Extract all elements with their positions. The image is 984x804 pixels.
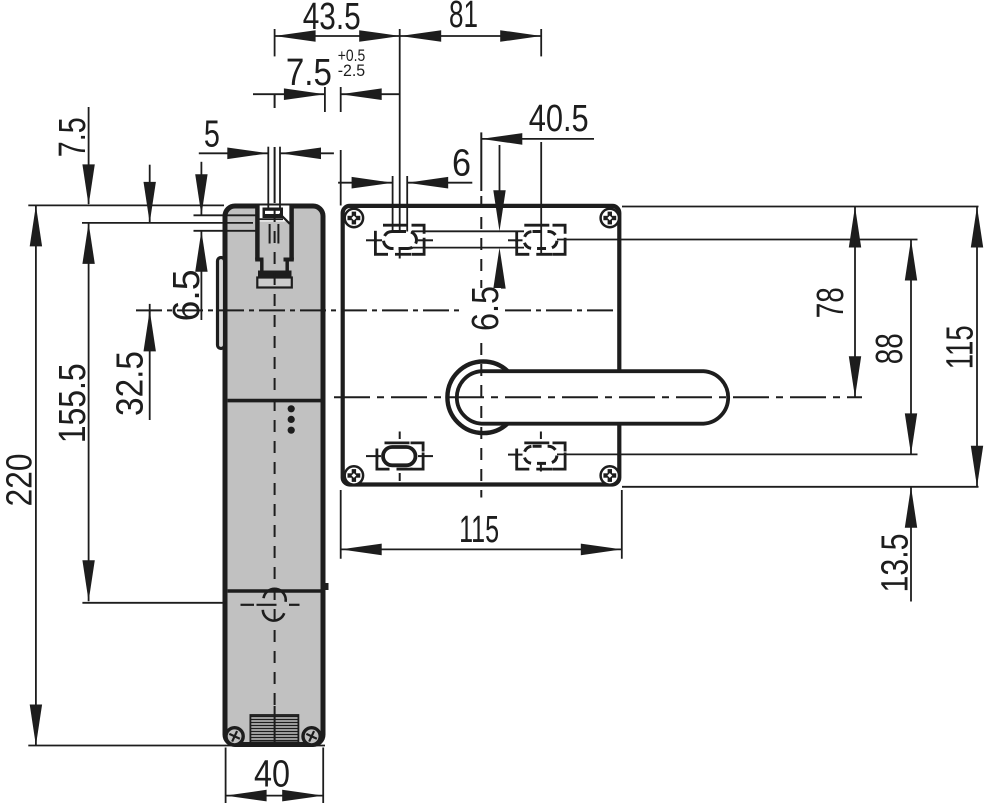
svg-text:6.5: 6.5 [465, 286, 507, 331]
svg-text:13.5: 13.5 [874, 534, 916, 593]
svg-text:155.5: 155.5 [52, 363, 94, 443]
svg-text:7.5: 7.5 [52, 117, 94, 157]
svg-text:40: 40 [254, 754, 290, 796]
svg-text:6: 6 [452, 143, 471, 185]
svg-text:5: 5 [204, 114, 220, 156]
svg-text:-2.5: -2.5 [338, 61, 366, 80]
svg-text:78: 78 [810, 287, 852, 318]
svg-text:40.5: 40.5 [529, 98, 589, 140]
svg-text:6.5: 6.5 [166, 269, 208, 321]
svg-text:7.5: 7.5 [286, 52, 332, 94]
svg-text:88: 88 [869, 333, 911, 364]
svg-text:81: 81 [449, 0, 478, 36]
svg-text:115: 115 [940, 325, 982, 369]
svg-text:32.5: 32.5 [109, 351, 151, 416]
svg-text:43.5: 43.5 [303, 0, 361, 38]
svg-text:220: 220 [0, 454, 40, 507]
svg-text:115: 115 [459, 509, 499, 551]
